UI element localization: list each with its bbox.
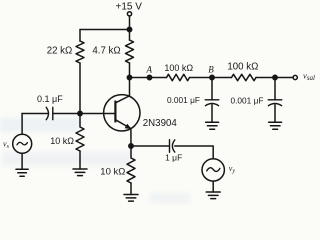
svg-text:B: B [208,65,214,75]
scan smudge lower-left [2,152,132,166]
transistor emitter arrowhead [125,124,131,129]
wire emitter down [130,129,132,146]
wire left vertical upper lead [79,30,81,42]
ground emitter [124,195,138,202]
ground vs [16,169,28,176]
wire top rail [80,29,130,31]
wire +15V stub [129,16,131,30]
wire B cap down [211,78,213,100]
transistor emitter [116,120,131,129]
node base junction [78,111,82,115]
source vy sine [207,168,220,172]
ground vy [206,192,220,199]
node +15 junction [127,27,131,31]
wire vy to ground [212,181,214,192]
capacitor 0.1 uF [46,107,53,119]
svg-text:0.001 μF: 0.001 μF [167,95,200,105]
svg-text:100 kΩ: 100 kΩ [227,62,258,73]
ground bias [73,169,87,176]
wire right vertical upper lead [129,30,131,41]
svg-text:10 kΩ: 10 kΩ [100,167,125,178]
node output junction [273,75,277,79]
svg-text:+15 V: +15 V [116,2,143,13]
svg-text:A: A [146,65,153,75]
wire emitter row to 1uF [131,145,169,147]
wire 4.7k to collector node [129,63,131,78]
wire 22k to base node [79,63,81,114]
node B dot [210,75,214,79]
wire output row segment 3 [256,77,293,79]
capacitor 0.001 uF at output [268,100,282,106]
svg-text:0.1 μF: 0.1 μF [37,94,63,104]
svg-text:1 μF: 1 μF [165,153,182,163]
transistor base bar [114,102,116,122]
wire B cap to ground [211,105,213,123]
source vs circle [13,134,32,153]
svg-text:4.7 kΩ: 4.7 kΩ [92,46,120,57]
transistor Q1 2N3904 circle [104,95,140,131]
wire 10k bias to ground [79,151,81,169]
resistor 100 kOhm right [232,74,257,80]
wire base horizontal left of cap [22,113,48,115]
wire 10k emitter to ground [130,183,132,195]
wire vs up [21,114,23,135]
wire output row segment 1 [130,77,167,79]
scan smudge bottom [150,193,190,203]
resistor 100 kOhm left [167,74,190,80]
svg-text:100 kΩ: 100 kΩ [164,63,193,73]
wire vs to ground [21,153,23,169]
ground out cap [269,122,282,129]
svg-text:2N3904: 2N3904 [143,118,178,129]
resistor 4.7 kOhm [126,40,134,63]
ground B cap [206,122,219,129]
wire out cap to ground [274,105,276,123]
wire out cap down [274,78,276,100]
wire output row segment 2 [190,77,232,79]
capacitor 1 uF [170,140,175,153]
wire collector [116,78,130,103]
resistor 22 kOhm [76,41,84,63]
scan smudge left [0,118,80,132]
wire cap to base [53,113,116,115]
wire 1uF to vy corner [175,146,213,159]
terminal v_sal [293,75,297,79]
svg-text:10 kΩ: 10 kΩ [50,136,74,146]
node emitter junction [129,144,133,148]
capacitor 0.001 uF at B [205,100,219,106]
resistor 10 kOhm emitter [127,146,135,183]
node A dot [147,75,151,79]
resistor 10 kOhm bias [76,114,84,152]
source vy circle [202,159,224,181]
+15V terminal [127,12,131,16]
svg-text:0.001 μF: 0.001 μF [231,96,264,106]
svg-text:22 kΩ: 22 kΩ [47,46,73,57]
source vs sine [17,142,27,145]
node collector junction [127,75,131,79]
